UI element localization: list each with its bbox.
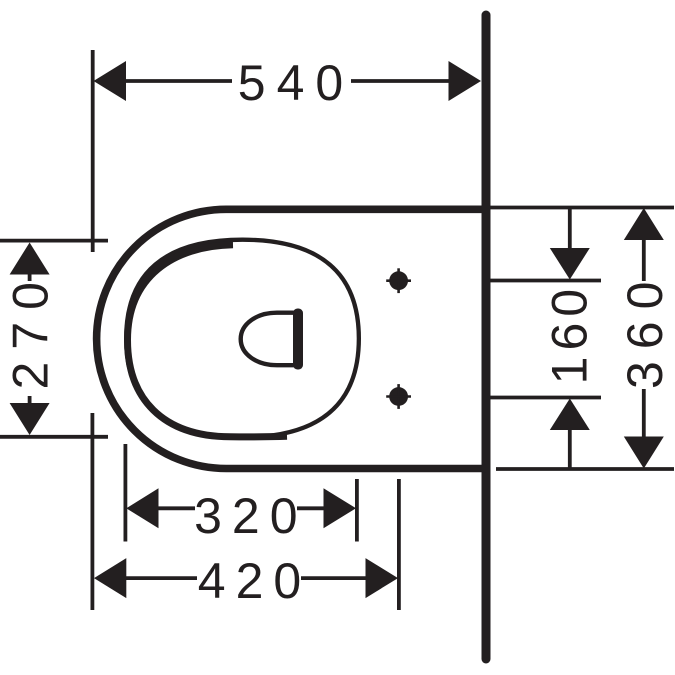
svg-text:270: 270 [3, 270, 59, 389]
svg-text:540: 540 [238, 55, 354, 111]
svg-text:360: 360 [617, 270, 673, 389]
svg-text:320: 320 [194, 488, 307, 544]
svg-text:420: 420 [198, 553, 311, 609]
svg-text:160: 160 [542, 283, 598, 384]
